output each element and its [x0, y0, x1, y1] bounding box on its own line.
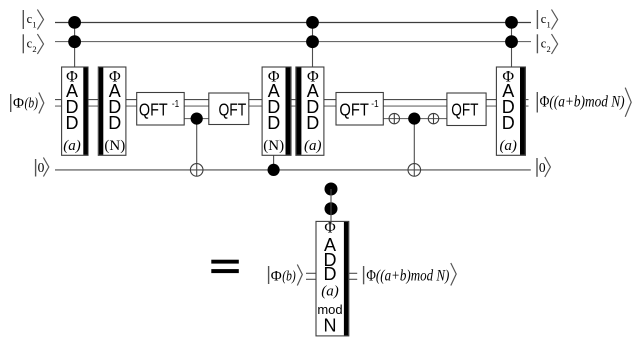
svg-text:D: D — [108, 113, 121, 133]
control dot c2 for U9 — [505, 35, 518, 48]
wire CNOT1 vertical — [196, 119, 198, 177]
svg-text:(b): (b) — [282, 269, 296, 285]
svg-text:N: N — [324, 315, 337, 335]
CNOT2 target — [408, 164, 421, 177]
svg-text:(b): (b) — [25, 95, 39, 111]
wire control line to U1 — [74, 22, 76, 67]
wire bottom bus left stub lower — [306, 278, 317, 280]
gate U10 phi-ADD(a) mod N — [316, 220, 349, 336]
gate U2 phi-ADD(N) — [98, 67, 126, 155]
node |Phi((a+b)mod N)> output label — [537, 88, 631, 117]
equals sign — [211, 260, 239, 273]
svg-text:-1: -1 — [371, 99, 379, 110]
gate U9 phi-ADD(a) controlled — [496, 67, 525, 155]
node |Phi(b)> bottom input label — [269, 265, 303, 286]
gate U8 QFT — [447, 93, 486, 126]
svg-text:Φ((a+b)mod N): Φ((a+b)mod N) — [540, 94, 625, 111]
control dot c2 for U1 — [68, 35, 81, 48]
X gate 1 — [389, 113, 399, 123]
svg-text:(N): (N) — [104, 138, 125, 154]
node |0> output label — [537, 157, 550, 177]
wire bottom bus right stub lower — [349, 278, 358, 280]
svg-text:(a): (a) — [304, 138, 322, 154]
gate U3 QFT^-1 — [137, 93, 185, 126]
gate U7 QFT^-1 — [336, 93, 383, 126]
control dot c1 for U1 — [68, 16, 81, 29]
svg-text:Φ: Φ — [13, 95, 24, 111]
svg-text:1: 1 — [32, 20, 36, 30]
X gate 2 — [428, 113, 438, 123]
control dot c1 for U10 — [325, 183, 338, 196]
svg-text:(a): (a) — [499, 138, 517, 154]
wire phi(b) bus lower line — [55, 105, 529, 107]
svg-text:D: D — [267, 113, 280, 133]
node |c2> input label — [23, 34, 43, 54]
svg-text:(N): (N) — [263, 138, 284, 154]
wire bottom bus right stub upper — [349, 272, 358, 274]
wire control line to U9 — [511, 22, 513, 67]
node |c1> output label — [537, 10, 557, 30]
node |0> input label — [36, 158, 49, 177]
wire c1 — [55, 22, 531, 24]
svg-text:D: D — [324, 264, 337, 284]
svg-text:QFT: QFT — [339, 99, 369, 119]
CNOT1 target — [190, 164, 203, 177]
svg-text:Φ: Φ — [271, 269, 282, 285]
control dot on ancilla for U5 — [268, 164, 280, 176]
node |c2> output label — [537, 34, 557, 54]
svg-text:D: D — [306, 113, 319, 133]
wire ancilla |0> — [55, 169, 531, 171]
wire control line to U6 — [312, 22, 314, 67]
svg-text:D: D — [502, 113, 515, 133]
svg-text:0: 0 — [38, 160, 45, 175]
svg-text:2: 2 — [547, 44, 551, 54]
control dot c1 for U9 — [505, 16, 518, 29]
svg-text:QFT: QFT — [451, 99, 478, 119]
node |Phi((a+b)mod N)> bottom output label — [364, 263, 457, 286]
wire bottom bus left stub upper — [306, 272, 317, 274]
control dot c2 for U10 — [325, 202, 338, 215]
svg-text:-1: -1 — [172, 99, 180, 110]
wire control line to U10 — [330, 189, 332, 221]
gate U5 phi-ADD(N) controlled — [262, 67, 291, 155]
node |c1> input label — [23, 10, 43, 30]
wire top qubit segment 2 — [383, 118, 448, 120]
svg-text:QFT: QFT — [139, 99, 168, 119]
gate U1 phi-ADD(a) — [62, 67, 88, 155]
gate U6 phi-ADD(a) controlled — [296, 67, 324, 155]
wire phi(b) bus upper line — [55, 99, 529, 101]
svg-text:D: D — [66, 113, 79, 133]
control dot c1 for U6 — [306, 16, 319, 29]
wire CNOT2 vertical — [413, 119, 415, 177]
svg-text:2: 2 — [32, 44, 36, 54]
node |Phi(b)> input label — [11, 93, 44, 114]
wire c2 — [55, 41, 531, 43]
gate U4 QFT — [209, 93, 249, 125]
wire top qubit segment 1 — [183, 118, 210, 120]
svg-text:QFT: QFT — [219, 99, 247, 119]
wire control line U5 to ancilla — [273, 155, 275, 170]
control dot c2 for U6 — [306, 35, 319, 48]
control dot CNOT1 — [191, 113, 203, 125]
svg-text:0: 0 — [539, 160, 546, 175]
svg-text:1: 1 — [547, 20, 551, 30]
svg-text:Φ((a+b)mod N): Φ((a+b)mod N) — [366, 268, 449, 285]
svg-text:(a): (a) — [63, 138, 81, 154]
control dot CNOT2 — [408, 113, 420, 125]
svg-text:(a): (a) — [321, 284, 339, 300]
